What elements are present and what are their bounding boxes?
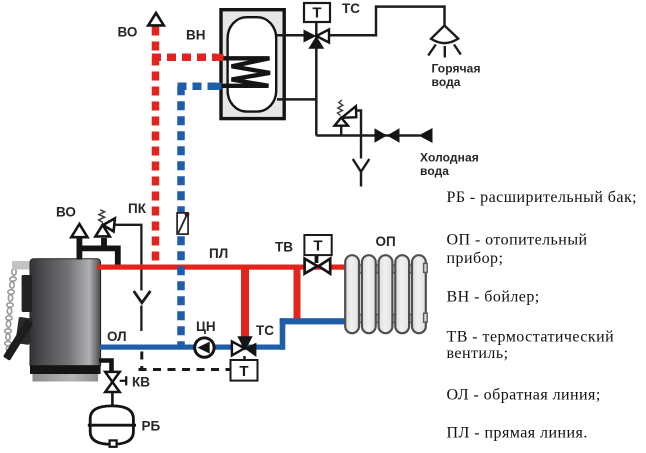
svg-text:ОЛ: ОЛ [107, 329, 127, 344]
svg-text:вентиль;: вентиль; [447, 345, 509, 362]
svg-text:ОЛ - обратная линия;: ОЛ - обратная линия; [447, 387, 601, 404]
svg-text:Холодная: Холодная [420, 151, 479, 165]
svg-text:ВО: ВО [118, 25, 138, 40]
svg-text:КВ: КВ [132, 375, 150, 390]
svg-text:ВН: ВН [186, 28, 206, 43]
svg-text:ВО: ВО [56, 205, 76, 220]
svg-text:РБ: РБ [142, 419, 161, 434]
svg-text:ОП - отопительный: ОП - отопительный [447, 232, 588, 249]
svg-text:ПЛ: ПЛ [209, 246, 228, 261]
svg-text:Т: Т [239, 363, 248, 380]
svg-text:ПЛ - прямая линия.: ПЛ - прямая линия. [447, 425, 588, 442]
svg-text:прибор;: прибор; [447, 250, 504, 267]
svg-text:ТВ - термостатический: ТВ - термостатический [447, 329, 615, 346]
svg-text:вода: вода [432, 75, 461, 89]
svg-text:Т: Т [313, 238, 322, 255]
svg-text:ОП: ОП [376, 234, 396, 249]
svg-text:РБ - расширительный бак;: РБ - расширительный бак; [447, 189, 638, 206]
svg-text:ТС: ТС [342, 1, 360, 16]
svg-text:ТВ: ТВ [275, 240, 293, 255]
svg-text:Т: Т [312, 5, 321, 22]
svg-text:Горячая: Горячая [432, 62, 481, 76]
svg-text:вода: вода [420, 164, 449, 178]
svg-text:ТС: ТС [256, 323, 274, 338]
svg-text:ЦН: ЦН [196, 319, 216, 334]
svg-text:ВН - бойлер;: ВН - бойлер; [447, 289, 540, 306]
svg-text:ПК: ПК [128, 201, 147, 216]
